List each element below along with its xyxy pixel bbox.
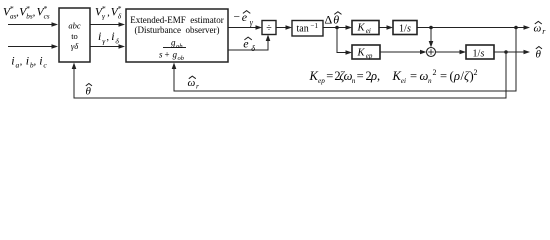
label V*as V*bs V*cs: [3, 4, 50, 20]
label fraction g_ob over s+g_ob: [159, 38, 185, 63]
svg-text:,: ,: [33, 8, 36, 19]
label 1/s first: [399, 24, 411, 35]
svg-text:,: ,: [20, 57, 23, 68]
node junction theta feedback: [504, 50, 508, 54]
svg-text:s: s: [159, 50, 163, 60]
block arctan: [292, 21, 323, 37]
block integrator 1/s second: [466, 45, 494, 59]
svg-text:δ: δ: [115, 36, 119, 45]
svg-text:−: −: [234, 12, 241, 24]
svg-text:tan: tan: [297, 24, 309, 35]
wire Vabc input arrow: [8, 22, 58, 27]
label divider sign: [266, 23, 272, 34]
wire omega_r feedback rail to estimator: [172, 28, 516, 92]
node junction omega feedback: [514, 26, 518, 30]
svg-text:ei: ei: [366, 27, 371, 35]
svg-text:n: n: [428, 77, 432, 85]
svg-text:2: 2: [433, 68, 437, 77]
svg-text:ω: ω: [188, 77, 196, 89]
node junction to summing point: [429, 26, 433, 30]
wire e_delta output to divider bottom: [228, 35, 270, 51]
label 1/s second: [473, 49, 485, 60]
node junction after arctan: [335, 26, 339, 30]
svg-text:θ: θ: [86, 86, 92, 98]
wire integrator1 to omega_r output: [417, 25, 530, 30]
divider block: [262, 21, 276, 35]
label block abc to gd: [68, 21, 81, 52]
svg-text:÷: ÷: [266, 23, 272, 34]
svg-text:cs: cs: [44, 12, 50, 20]
label e_delta with hat: [243, 37, 255, 53]
label -e_gamma with hat: [234, 10, 254, 27]
svg-text:K: K: [357, 23, 366, 34]
label theta-hat feedback: [86, 84, 93, 98]
svg-text:,: ,: [107, 32, 110, 43]
svg-text:ep: ep: [318, 77, 325, 85]
svg-text:K: K: [357, 48, 366, 59]
svg-text:δ: δ: [118, 12, 122, 21]
label delta-theta-hat: [325, 12, 342, 27]
svg-text:,: ,: [34, 57, 37, 68]
svg-text:+: +: [165, 50, 170, 60]
svg-text:i: i: [98, 29, 101, 43]
svg-text:2: 2: [474, 68, 478, 77]
block Kep gain: [352, 45, 380, 59]
block abc-to-gammadelta transform: [59, 8, 90, 62]
svg-text:ρ: ρ: [370, 69, 377, 83]
svg-text:ob: ob: [178, 55, 185, 62]
summing junction circle: [427, 48, 436, 57]
label V*gamma V*delta: [95, 4, 122, 21]
svg-text:r: r: [196, 82, 199, 91]
svg-text:θ: θ: [333, 13, 339, 27]
svg-text:δ: δ: [251, 44, 255, 53]
svg-text:1/: 1/: [473, 49, 481, 60]
label Extended-EMF estimator lines: [130, 15, 223, 35]
wire summer to integrator 2: [436, 50, 467, 55]
label omega_r-hat feedback: [188, 76, 200, 91]
svg-text:Δ: Δ: [325, 13, 333, 27]
svg-text:−1: −1: [311, 22, 319, 30]
label tan-1: [297, 22, 319, 35]
label Kep: [357, 48, 373, 61]
label i-gamma i-delta: [98, 29, 119, 45]
label omega_r-hat output: [534, 21, 547, 36]
svg-text:ei: ei: [401, 77, 406, 85]
svg-text:K: K: [309, 69, 319, 83]
svg-text:=: =: [440, 69, 447, 83]
wire junction down to Kep: [337, 28, 352, 55]
label Kei: [357, 23, 371, 36]
svg-text:ω: ω: [534, 23, 542, 35]
svg-text:s: s: [481, 49, 485, 60]
wire V-gamma-delta arrow: [90, 22, 125, 27]
svg-text:(Disturbance observer): (Disturbance observer): [135, 25, 220, 35]
svg-text:i: i: [26, 54, 29, 68]
svg-text:ρ: ρ: [453, 69, 460, 83]
svg-text:Extended-EMF estimator: Extended-EMF estimator: [130, 15, 223, 25]
wire Kep to summer: [380, 50, 427, 55]
label theta-hat output: [536, 47, 543, 61]
wire i-gamma-delta arrow: [90, 44, 125, 49]
wire junction down into summer top: [429, 28, 434, 48]
wire integrator2 to theta output: [494, 50, 530, 55]
svg-text:,: ,: [107, 8, 110, 19]
svg-text:=: =: [410, 69, 417, 83]
wire arctan to Kei with junction: [323, 25, 352, 30]
wire divider to arctan: [276, 25, 292, 30]
svg-text:ep: ep: [366, 52, 373, 60]
svg-text:to: to: [71, 31, 78, 41]
svg-text:γ: γ: [250, 18, 254, 27]
svg-text:=: =: [326, 69, 333, 83]
svg-text:i: i: [11, 54, 14, 68]
label ia ib ic: [11, 54, 47, 70]
svg-text:ob: ob: [176, 43, 183, 50]
svg-text:i: i: [111, 29, 114, 43]
wire theta feedback rail to abc block: [72, 52, 506, 98]
svg-text:,: ,: [377, 69, 380, 83]
svg-text:r: r: [542, 27, 546, 36]
svg-text:1/: 1/: [399, 24, 407, 35]
block Kei gain: [352, 21, 379, 35]
svg-text:θ: θ: [536, 49, 542, 61]
svg-text:s: s: [407, 24, 411, 35]
label gain formula: [309, 68, 478, 85]
svg-text:n: n: [352, 77, 356, 85]
svg-text:abc: abc: [68, 21, 81, 31]
wire -e_gamma output to divider: [228, 25, 262, 30]
block integrator 1/s first: [393, 21, 417, 35]
wire iabc input arrow: [8, 44, 58, 49]
block Extended-EMF estimator (disturbance observer): [126, 9, 228, 62]
svg-text:c: c: [43, 60, 47, 69]
svg-text:i: i: [39, 54, 42, 68]
svg-text:=: =: [357, 69, 364, 83]
svg-text:γδ: γδ: [71, 41, 79, 51]
wire Kei to integrator 1: [379, 25, 393, 30]
